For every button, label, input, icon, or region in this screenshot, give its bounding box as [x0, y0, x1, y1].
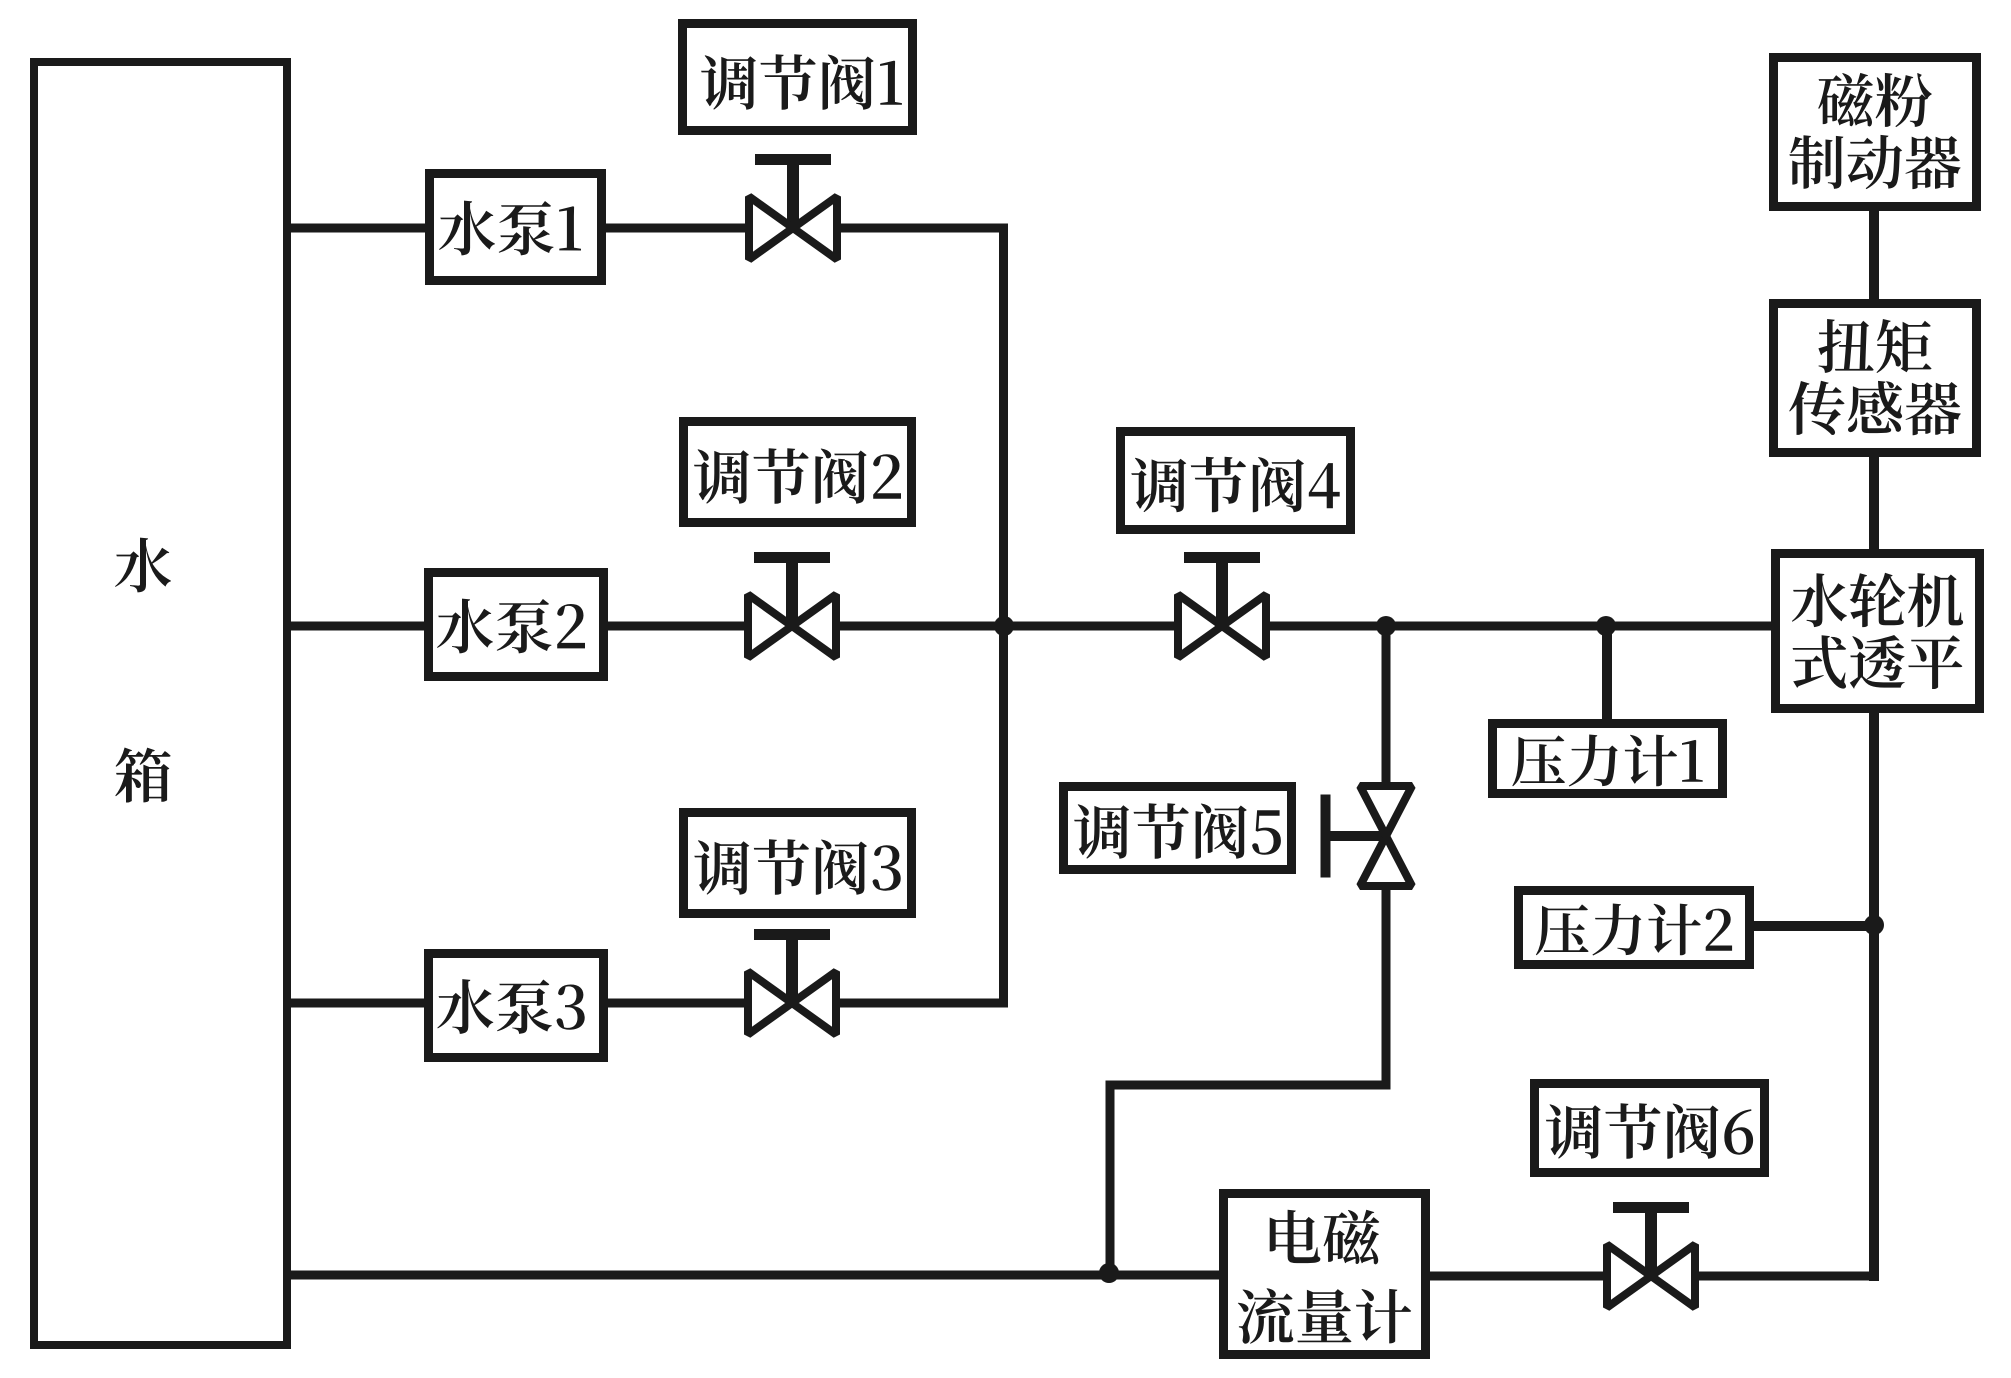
- label 水泵3: [437, 979, 584, 1034]
- wire torque sensor to turbine: [1869, 453, 1879, 553]
- wire valve V5 branch down to bottom return: [1106, 1081, 1115, 1275]
- label 式透平 (line 2): [1793, 635, 1963, 689]
- label box 调节阀4: [1121, 432, 1351, 530]
- wire flowmeter to corner (through valve V6): [1426, 1272, 1879, 1281]
- label 制动器 (line 2): [1789, 135, 1960, 189]
- wire tank to pump3: [287, 999, 428, 1008]
- label 传感器 (line 2): [1789, 381, 1961, 435]
- wire junction B down to valve V5: [1382, 622, 1391, 837]
- label box 调节阀1: [683, 24, 913, 131]
- junction D (pressure gauge 2 tap): [1864, 915, 1884, 935]
- label box 调节阀2: [684, 422, 912, 523]
- wire pump2 to junction A (through valve V2): [604, 622, 1004, 631]
- junction E (bottom return / V5 branch): [1099, 1263, 1119, 1283]
- valve V5 (调节阀5 symbol, vertical): [1326, 786, 1413, 886]
- junction C (pressure gauge 1 tap): [1596, 616, 1616, 636]
- label 调节阀6: [1546, 1103, 1753, 1159]
- wire pump collector (manifold) vertical: [999, 224, 1008, 1008]
- junction A (pump manifold / main line): [994, 616, 1014, 636]
- label 调节阀1: [701, 54, 902, 110]
- label box 调节阀3: [684, 813, 912, 914]
- valve V4 (调节阀4 symbol): [1178, 558, 1266, 658]
- wire tank to pump2: [287, 622, 428, 631]
- wire turbine outlet down to valve V6 line: [1869, 709, 1879, 1281]
- wire pump1 to collector (through valve V1): [602, 224, 1008, 233]
- wire tank bottom return to flowmeter: [287, 1271, 1223, 1280]
- tank label 水: [115, 538, 171, 593]
- wire pump3 to collector (through valve V3): [604, 999, 1008, 1008]
- junction B (valve V5 branch): [1376, 616, 1396, 636]
- wire valve V5 down to corner: [1382, 836, 1391, 1090]
- label 调节阀4: [1131, 457, 1339, 513]
- label box 压力计2: [1519, 891, 1750, 965]
- component box 水轮机式透平: [1776, 554, 1980, 709]
- label 压力计1: [1512, 735, 1702, 787]
- water tank box: [34, 62, 287, 1345]
- label 电磁 (line 1): [1270, 1210, 1380, 1265]
- valve V1 (调节阀1 symbol): [749, 160, 837, 260]
- valve V2 (调节阀2 symbol): [748, 558, 836, 658]
- wire valve V5 branch horizontal: [1106, 1081, 1391, 1090]
- tank label 箱: [115, 748, 170, 803]
- component box 磁粉制动器: [1774, 58, 1977, 207]
- label 流量计 (line 2): [1238, 1288, 1411, 1343]
- label 扭矩 (line 1): [1818, 319, 1931, 373]
- label 水泵2: [437, 599, 585, 654]
- label 磁粉 (line 1): [1818, 73, 1932, 127]
- pump box 水泵3: [429, 954, 604, 1058]
- valve V3 (调节阀3 symbol): [748, 935, 836, 1035]
- valve V6 (调节阀6 symbol): [1607, 1208, 1695, 1308]
- label box 调节阀5: [1064, 787, 1292, 870]
- pump box 水泵2: [429, 573, 604, 677]
- label 水轮机 (line 1): [1792, 573, 1963, 627]
- label box 调节阀6: [1535, 1084, 1765, 1173]
- label 调节阀5: [1074, 803, 1281, 859]
- wire junction A to valve V4: [1004, 622, 1222, 631]
- label box 压力计1: [1493, 724, 1723, 794]
- component box 电磁流量计: [1224, 1194, 1426, 1355]
- component box 扭矩传感器: [1774, 304, 1977, 453]
- wire valve V4 to turbine inlet: [1222, 622, 1775, 631]
- label 水泵1: [439, 201, 581, 256]
- wire tank to pump1: [287, 224, 429, 233]
- label 调节阀2: [694, 448, 901, 504]
- label 压力计2: [1536, 904, 1732, 956]
- label 调节阀3: [694, 839, 900, 895]
- wire pressure gauge 2 to junction D: [1750, 921, 1874, 931]
- pump box 水泵1: [430, 174, 602, 281]
- wire brake to torque sensor: [1869, 207, 1879, 303]
- wire pressure gauge 1 stem: [1602, 626, 1612, 723]
